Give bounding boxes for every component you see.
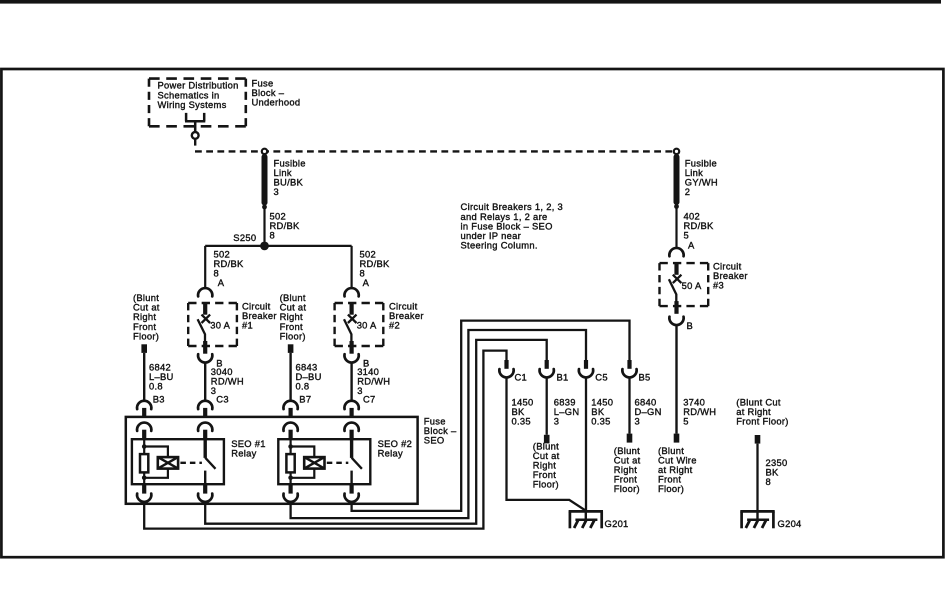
svg-text:Floor): Floor): [658, 483, 684, 494]
svg-text:C7: C7: [363, 393, 376, 404]
label circuit breaker #3: [713, 261, 748, 291]
connector B of circuit breaker #1: [198, 354, 223, 368]
svg-text:3: 3: [554, 416, 560, 427]
svg-text:B3: B3: [153, 393, 165, 404]
connector pin C3 input at relay: [198, 423, 212, 440]
svg-text:Floor): Floor): [614, 483, 640, 494]
blunt cut terminal left: [141, 344, 147, 353]
blunt cut terminal B5: [627, 434, 633, 443]
svg-text:0.8: 0.8: [149, 381, 163, 392]
svg-text:C5: C5: [595, 372, 608, 383]
ground G201: [569, 511, 629, 529]
blunt cut terminal 2350: [755, 435, 761, 444]
svg-text:A: A: [218, 277, 225, 288]
label Fuse Block - Underhood: [252, 78, 301, 108]
connector pin B3 input at relay: [137, 423, 151, 440]
connector C1: [499, 360, 527, 383]
label blunt cut 2350: [736, 397, 788, 427]
label fusible link left: [274, 158, 306, 198]
svg-text:Relay: Relay: [231, 448, 256, 459]
wire 502 RD/BK 8 (link to S250): [263, 207, 265, 242]
svg-text:3: 3: [274, 186, 280, 197]
wire 2350 BK 8 to G204: [758, 444, 788, 512]
connector pin B7 input at fuse block: [283, 401, 297, 417]
svg-text:0.8: 0.8: [296, 381, 310, 392]
svg-text:Floor): Floor): [133, 330, 159, 341]
svg-text:G204: G204: [778, 518, 802, 529]
relay output pin 3: [283, 484, 297, 502]
wire 1450 BK 0.35 (C1) to G201: [507, 377, 587, 511]
svg-text:Floor): Floor): [280, 330, 306, 341]
svg-text:C1: C1: [515, 372, 528, 383]
label fusible link right: [685, 158, 718, 198]
wire loop: relay1 switch output to B1: [205, 340, 547, 524]
node: trunk tap left: [262, 149, 267, 154]
connector B5: [622, 360, 650, 383]
connector A of circuit breaker #1: [198, 288, 212, 296]
wire 1450 BK 0.35 (C5) to G201: [586, 377, 613, 512]
svg-text:C3: C3: [216, 393, 229, 404]
note: circuit breakers location: [461, 201, 564, 250]
fusible link BU/BK (left): [262, 154, 268, 209]
svg-text:5: 5: [683, 416, 689, 427]
label blunt cut left: [133, 292, 160, 341]
relay output pin 4: [344, 484, 358, 502]
wire loop: relay1 coil output to C1: [144, 351, 506, 529]
svg-text:3: 3: [357, 385, 363, 396]
relay output pin 2: [198, 484, 212, 502]
svg-text:3: 3: [635, 416, 641, 427]
relay SEO #1: [132, 439, 224, 484]
svg-text:B7: B7: [299, 393, 311, 404]
wire 6842 L-BU 0.8: [144, 353, 173, 402]
svg-text:SEO: SEO: [424, 435, 445, 446]
svg-text:Steering Column.: Steering Column.: [461, 240, 538, 251]
blunt cut terminal B1: [544, 435, 550, 444]
svg-text:Relay: Relay: [378, 448, 403, 459]
wire 6839 L-GN 3 (B1): [547, 377, 580, 435]
wire loop: relay2 switch output to B5: [352, 321, 630, 511]
svg-text:B: B: [687, 320, 694, 331]
svg-text:B5: B5: [639, 372, 651, 383]
svg-text:Wiring Systems: Wiring Systems: [158, 99, 227, 110]
connector pin B3 input at fuse block: [137, 401, 151, 417]
connector pin C7 input at relay: [344, 423, 358, 440]
circuit breaker #3 50A: [660, 263, 709, 314]
svg-text:B1: B1: [557, 372, 569, 383]
fuse block SEO box: [126, 417, 418, 504]
label circuit breaker #2: [389, 301, 424, 331]
connector symbol below reference box: [185, 113, 205, 146]
connector pin B7 input at relay: [283, 423, 297, 440]
svg-text:G201: G201: [605, 518, 629, 529]
blunt cut terminal 3740: [674, 434, 680, 443]
wire loop: relay2 coil output to C5: [291, 330, 586, 518]
label blunt cut wire 3740: [658, 445, 697, 494]
svg-text:A: A: [688, 240, 695, 251]
svg-text:8: 8: [766, 476, 772, 487]
relay SEO #2: [278, 439, 370, 484]
svg-text:Floor): Floor): [533, 479, 559, 490]
svg-text:2: 2: [685, 186, 691, 197]
splice S250: [233, 232, 269, 251]
svg-text:30 A: 30 A: [210, 320, 230, 331]
connector pin C7 input at fuse block: [344, 401, 358, 417]
connector A of circuit breaker #3: [669, 248, 683, 256]
ground G204: [740, 511, 801, 529]
svg-text:#2: #2: [389, 320, 400, 331]
wire 3140 RD/WH 3: [352, 362, 391, 402]
svg-text:0.35: 0.35: [512, 416, 531, 427]
svg-text:30 A: 30 A: [357, 320, 377, 331]
label fuse block SEO: [424, 416, 457, 446]
wire 3040 RD/WH 3: [205, 362, 244, 402]
connector A of circuit breaker #2: [344, 288, 358, 296]
relay output pin 1: [137, 484, 151, 502]
dashed trunk wire from connector to fusible links: [195, 150, 677, 152]
wire 502 RD/BK 8 (left branch): [205, 246, 244, 289]
svg-text:8: 8: [270, 230, 276, 241]
fusible link GY/WH (right): [674, 154, 680, 209]
connector B1: [540, 360, 569, 383]
connector C5: [579, 360, 608, 383]
label blunt cut middle: [280, 292, 307, 341]
top title bar: [0, 0, 941, 4]
wire 502 RD/BK 8 (right branch): [352, 246, 390, 289]
wire: S250 bus: [205, 245, 351, 247]
connector pin C3 input at fuse block: [198, 401, 212, 417]
label blunt cut B5: [614, 445, 641, 494]
svg-text:#1: #1: [242, 320, 253, 331]
svg-text:#3: #3: [713, 280, 724, 291]
blunt cut terminal middle: [288, 344, 294, 353]
svg-text:50 A: 50 A: [682, 280, 702, 291]
svg-text:A: A: [363, 277, 370, 288]
node: trunk end right: [674, 149, 679, 154]
svg-text:0.35: 0.35: [591, 416, 610, 427]
label circuit breaker #1: [242, 301, 277, 331]
label SEO #2 relay: [378, 438, 413, 459]
connector B of circuit breaker #3: [669, 317, 693, 331]
wire 3740 RD/WH 5: [677, 324, 717, 433]
circuit breaker #1 30A: [188, 303, 237, 354]
circuit breaker #2 30A: [335, 303, 384, 354]
svg-text:S250: S250: [233, 232, 256, 243]
wire 6843 D-BU 0.8: [291, 353, 322, 402]
reference box: Power Distribution Schematics in Wiring Systems: [149, 79, 246, 127]
wire 6840 D-GN 3 (B5): [630, 377, 662, 434]
svg-text:Front Floor): Front Floor): [736, 416, 788, 427]
wire 402 RD/BK 5: [677, 207, 715, 251]
svg-text:Underhood: Underhood: [252, 97, 301, 108]
label SEO #1 relay: [231, 438, 266, 459]
connector B of circuit breaker #2: [344, 354, 369, 368]
label blunt cut B1: [533, 441, 560, 490]
